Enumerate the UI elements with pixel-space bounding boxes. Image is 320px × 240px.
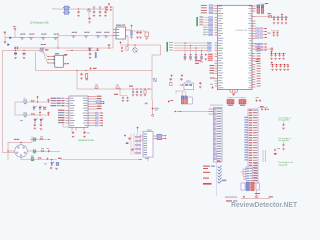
svg-text:language GND: language GND <box>278 165 287 167</box>
svg-text:GND/RESET IN GND: GND/RESET IN GND <box>78 140 94 142</box>
svg-text:CLK 4.0 (Resonance in GND): CLK 4.0 (Resonance in GND) <box>30 23 49 25</box>
svg-text:ReviewDetector.NET: ReviewDetector.NET <box>231 202 298 209</box>
svg-text:STM32F103: STM32F103 <box>235 30 248 32</box>
